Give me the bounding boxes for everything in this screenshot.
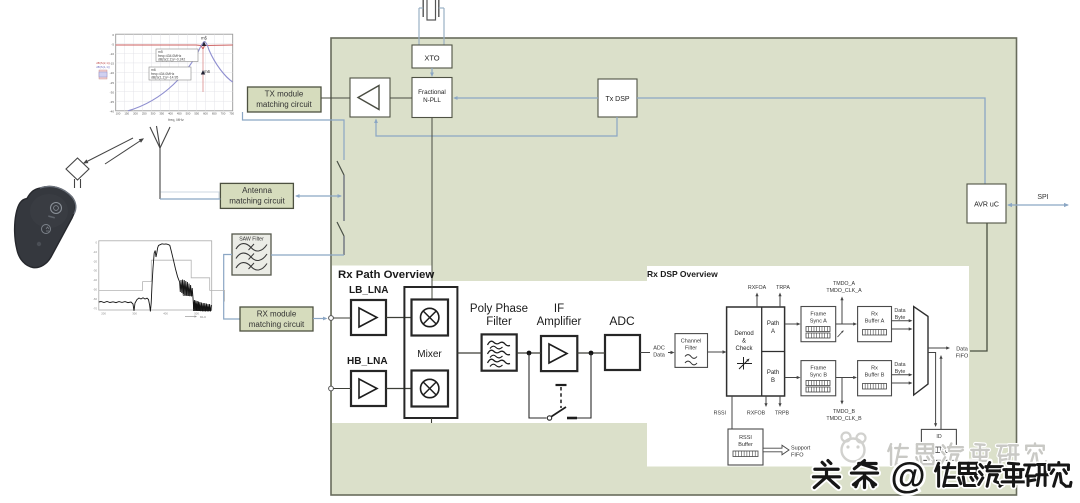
svg-text:LB_LNA: LB_LNA [349,285,388,296]
svg-text:Filter: Filter [685,346,697,352]
register Frame Sync A box [801,307,844,342]
register ID box [921,429,956,460]
svg-text:450: 450 [177,112,182,116]
svg-text:Buffer A: Buffer A [865,319,885,325]
label IF Amplifier [537,303,582,328]
wire mixer to poly phase filter [457,352,481,354]
node LB_LNA input port [329,316,334,321]
svg-text:Path: Path [767,370,779,376]
svg-text:-50: -50 [93,288,97,292]
ADC U8 box [605,335,640,370]
svg-text:-60: -60 [93,297,97,301]
amplifier HB_LNA box [351,371,386,406]
svg-text:TMDO_A: TMDO_A [833,281,856,287]
mux MX1 (output multiplexer trapezoid) [914,307,928,395]
faint selection box artifact above antenna wire [161,192,220,200]
svg-text:A: A [771,329,775,335]
svg-text:Filter: Filter [486,316,512,328]
svg-text:TRPB: TRPB [775,411,790,417]
wire crystal right pin to XTO [443,8,445,45]
wire TX matching to antenna switch (blue) [243,112,345,160]
amplifier LB_LNA box [351,300,386,335]
antenna ANT1 [150,126,170,199]
wire HB port to HB_LNA [333,388,351,390]
svg-text:550: 550 [194,112,199,116]
TX module matching circuit box [248,87,322,112]
svg-text:B: B [771,378,775,384]
svg-text:Mixer: Mixer [417,349,442,360]
svg-text:-10: -10 [93,250,97,254]
svg-text:Support: Support [791,446,811,452]
watermark light text 佐思汽车研究 [888,443,1046,464]
wire mux down to ID (arrow down) [928,353,937,428]
svg-text:-35: -35 [110,100,115,104]
svg-text:0: 0 [112,33,114,37]
svg-text:FIFO: FIFO [791,453,804,459]
svg-text:Byte: Byte [895,315,906,321]
label+wire RXFOB (arrow down) [747,396,768,417]
svg-text:-30: -30 [93,269,97,273]
node J1 junction dot [527,351,532,356]
wire crystal left pin to XTO [418,8,420,45]
svg-text:Check: Check [735,346,753,352]
wire antenna matching to switch (blue double arrow) [295,194,342,198]
node HB_LNA input port [329,386,334,391]
mixer cell A (circle-X) [412,300,449,336]
label+wire TRPA (arrow up) [776,285,790,307]
Antenna matching circuit box [220,183,293,208]
svg-text:350: 350 [159,112,164,116]
svg-text:Frame: Frame [810,312,826,318]
wire SAW filter to switch (blue) [271,254,344,256]
label ADC [609,314,635,328]
op-amp PA U2 (power amplifier, triangle) [350,78,390,117]
svg-text:Fractional: Fractional [418,89,446,96]
svg-text:-5: -5 [111,42,114,46]
svg-text:Rx Path Overview: Rx Path Overview [338,269,434,281]
svg-text:@: @ [890,455,925,496]
svg-text:Data: Data [653,353,666,359]
svg-text:AVR uC: AVR uC [974,202,999,209]
svg-text:-15: -15 [110,62,115,66]
filter U6 Poly Phase Filter box [482,334,517,370]
Rx DSP Overview white panel [647,266,969,467]
svg-text:-25: -25 [110,81,115,85]
svg-text:-30: -30 [110,90,115,94]
svg-text:TMDO_B: TMDO_B [833,409,856,415]
svg-text:m5: m5 [201,36,207,41]
svg-text:500: 500 [194,312,199,316]
wire RX matching to LB input (blue arrow) [313,317,328,321]
svg-text:-20: -20 [93,259,97,263]
svg-text:Byte: Byte [895,369,906,375]
svg-text:Rx: Rx [871,366,878,372]
wire LB port to LB_LNA [333,317,351,319]
svg-text:Path: Path [767,321,779,327]
svg-text:600: 600 [203,112,208,116]
svg-text:Buffer B: Buffer B [865,373,885,379]
svg-text:250: 250 [142,112,147,116]
svg-text:650: 650 [212,112,217,116]
svg-text:TMDO_CLK_B: TMDO_CLK_B [826,416,862,422]
svg-text:Tx DSP: Tx DSP [605,96,629,103]
graph G1: S-parameter resonance plot [96,33,234,122]
wire Path A to Frame Sync A (arrow) [785,322,801,325]
svg-text:SAW Filter: SAW Filter [239,237,264,243]
svg-text:200: 200 [101,312,106,316]
svg-text:ID: ID [936,434,941,440]
amplifier U7 IF amplifier box [541,336,577,371]
wire mux to Data FIFO (arrow) [928,346,969,359]
Rx Path Overview white panel [332,281,647,423]
svg-text:MHz: MHz [200,315,207,319]
svg-text:Rx DSP Overview: Rx DSP Overview [647,269,718,279]
svg-text:matching circuit: matching circuit [249,320,305,329]
svg-text:RXFOA: RXFOA [748,285,767,291]
label Rx Path Overview [338,269,434,281]
RF link arrow to antenna [105,138,144,164]
svg-text:Data: Data [894,308,905,314]
watermark dark text 头条@佐思汽车研究 [813,455,1071,496]
svg-text:Sync A: Sync A [810,319,827,325]
wire LB_LNA to mixer [386,317,412,319]
label+wire SPI double arrow [1007,194,1069,207]
svg-text:TMDO_CLK_A: TMDO_CLK_A [826,288,862,294]
graph G2: SAW filter response spectrum [93,241,225,320]
label Data Byte A + arrows to mux [892,308,913,331]
wire Tx DSP to AVR uC (blue, top right) [637,98,985,184]
svg-text:dB(S(1,1)): dB(S(1,1)) [96,65,110,69]
wire TX matching to PA [321,97,350,99]
wire mixer bottom stub [431,418,433,423]
wire Frame Sync B to Rx Buffer B with TMDO_B tap [826,376,862,422]
wire IF amplifier to ADC [577,352,605,354]
label LB_LNA [349,285,388,296]
svg-text:FIFO: FIFO [956,354,969,360]
wire PA to N-PLL [390,97,412,99]
svg-text:dB(S(1,1))=-14.95: dB(S(1,1))=-14.95 [151,76,178,80]
svg-text:TRPA: TRPA [776,285,790,291]
svg-text:freq, MHz: freq, MHz [168,118,184,122]
label+wire RXFOA (arrow up) [748,285,767,307]
svg-text:150: 150 [124,112,129,116]
svg-text:m6: m6 [204,69,210,74]
wire SAW filter to RX matching (blue) [224,255,240,320]
Rx Path Overview label band [332,266,432,282]
wire PPF to IF amplifier [517,352,541,354]
mixer cell B (circle-X) [412,371,449,407]
svg-text:400: 400 [168,112,173,116]
svg-text:&: & [742,339,746,345]
svg-text:Rx: Rx [871,312,878,318]
svg-text:RX module: RX module [257,310,297,319]
wire HB_LNA to mixer [386,388,412,390]
demod U10 Demod & Check box with Path A/B [727,307,785,396]
switch S3 (IF bypass switch) [529,353,591,420]
mixer U5 outer box [404,287,457,418]
register Rx Buffer A box [858,307,892,342]
register Rx Buffer B box [858,361,892,396]
wire ID up to FIFO (arrow up) [939,355,942,429]
svg-text:Poly Phase: Poly Phase [470,303,528,315]
svg-text:400: 400 [163,312,168,316]
svg-text:300: 300 [151,112,156,116]
svg-text:RSSI: RSSI [739,435,752,441]
svg-text:ADC: ADC [609,314,635,328]
svg-text:-40: -40 [93,278,97,282]
svg-text:Channel: Channel [681,339,702,345]
register RSSI Buffer box [728,429,763,465]
key fob antenna diamond [66,158,89,188]
RF link arrow to diamond [83,138,133,164]
svg-text:300: 300 [132,312,137,316]
svg-text:Antenna: Antenna [242,186,272,195]
wire RSSI to RSSI buffer [714,396,732,429]
wire ADC to channel filter with ADC Data label [640,346,675,359]
svg-text:RXFOB: RXFOB [747,411,766,417]
svg-text:ADC: ADC [653,346,665,352]
Support FIFO hollow arrow [763,445,811,458]
wire Tx DSP modulation to PA (blue, arrow up) [374,117,617,136]
svg-text:500: 500 [186,112,191,116]
svg-text:0: 0 [95,241,97,245]
svg-text:TX module: TX module [265,90,304,99]
PLL U3 (Fractional N-PLL box) [412,78,452,118]
car key fob [15,186,76,267]
watermark logo (light gray circles) [842,433,866,462]
svg-text:-10: -10 [110,52,115,56]
svg-text:750: 750 [229,112,234,116]
wire Frame Sync A to Rx Buffer A with TMDO_A tap [826,281,862,326]
svg-text:Buffer: Buffer [738,442,753,448]
svg-text:Sync B: Sync B [810,373,828,379]
svg-text:Demod: Demod [734,331,753,337]
svg-text:700: 700 [221,112,226,116]
svg-text:Data: Data [956,347,969,353]
svg-text:-70: -70 [93,306,97,310]
wire channel filter to demod (arrow) [708,350,727,353]
XTO box [412,45,452,68]
wire Tx DSP to N-PLL (blue, arrow left) [453,96,598,100]
svg-text:HB_LNA: HB_LNA [347,356,388,367]
svg-text:matching circuit: matching circuit [229,197,285,206]
svg-text:RSSI: RSSI [714,411,726,417]
chip body (main transceiver IC outline) [331,38,1017,495]
wire AVR uC down to Data FIFO [970,223,987,351]
svg-text:200: 200 [133,112,138,116]
wire antenna to antenna matching circuit [160,198,220,200]
label Data Byte B + arrows to mux [892,362,913,385]
wire XTO to N-PLL (arrow down) [430,68,434,77]
label Poly Phase Filter [470,303,528,328]
Tx DSP box U4 [598,79,637,117]
wire N-PLL to Mixer LO [431,118,433,301]
node J2 junction dot [589,351,594,356]
svg-text:dB(S(2,1))=-0.242: dB(S(2,1))=-0.242 [158,58,185,62]
wire Path B to Frame Sync B (arrow) [785,376,801,379]
svg-text:Data: Data [894,362,905,368]
switch S2 (TX/RX antenna switch lower) [337,222,344,255]
svg-text:IF: IF [554,303,564,315]
svg-text:SPI: SPI [1037,194,1048,201]
filter U9 channel filter box [675,334,708,368]
svg-text:Amplifier: Amplifier [537,316,582,328]
RX module matching circuit box [240,307,313,331]
svg-text:100: 100 [116,112,121,116]
SAW filter box [232,234,271,275]
label HB_LNA [347,356,388,367]
svg-text:matching circuit: matching circuit [256,100,312,109]
label+wire TRPB (arrow down) [775,396,790,417]
label Rx DSP Overview [647,269,718,279]
svg-text:-20: -20 [110,71,115,75]
register Frame Sync B box [801,361,836,396]
svg-text:Frame: Frame [810,366,826,372]
svg-text:-40: -40 [110,110,115,114]
crystal X1 (XTO crystal) [419,0,444,20]
svg-text:N-PLL: N-PLL [423,97,441,104]
switch S1 (TX/RX antenna switch upper) [337,161,344,221]
AVR uC box [967,184,1006,223]
svg-text:XTO: XTO [424,54,439,63]
